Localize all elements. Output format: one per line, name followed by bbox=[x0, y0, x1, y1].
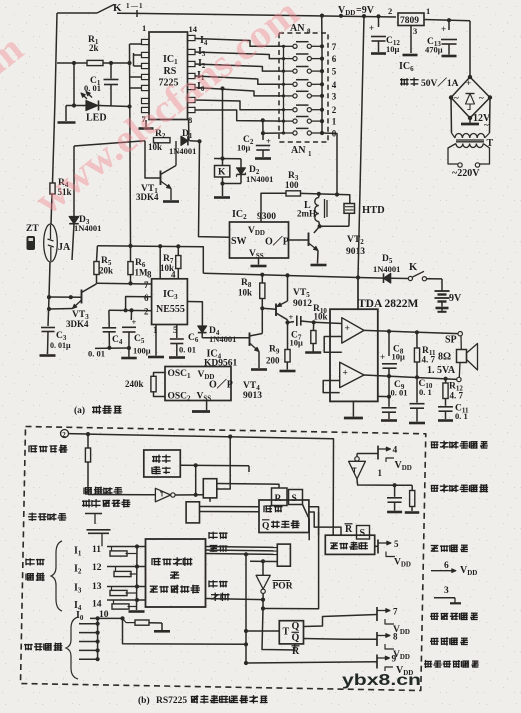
switch AN row 7 bbox=[282, 42, 324, 49]
node lock indicate label bbox=[430, 613, 478, 620]
pin 7 output bbox=[377, 607, 410, 637]
svg-text:K: K bbox=[218, 168, 226, 178]
svg-text:RS7225: RS7225 bbox=[156, 696, 187, 706]
diode D5 bbox=[373, 254, 408, 283]
ground (C10) bbox=[409, 422, 425, 425]
svg-text:R: R bbox=[345, 524, 353, 535]
node keypad digit 4 bbox=[332, 80, 337, 90]
inverter (level indicator) bbox=[88, 488, 203, 502]
svg-text:9012: 9012 bbox=[293, 299, 312, 309]
wire: R3 to HTD node bbox=[301, 192, 350, 204]
ground (C11) bbox=[438, 419, 453, 422]
svg-text:K: K bbox=[113, 2, 122, 14]
block power-on reset bbox=[144, 450, 181, 477]
svg-text:Q: Q bbox=[292, 633, 300, 644]
regulator 7809 bbox=[388, 6, 430, 36]
svg-text:1: 1 bbox=[126, 2, 130, 10]
svg-text:2: 2 bbox=[62, 431, 66, 439]
ground (relay K) bbox=[214, 196, 230, 199]
svg-text:3DK4: 3DK4 bbox=[136, 192, 159, 202]
ground (C2) bbox=[255, 157, 271, 160]
svg-text:4: 4 bbox=[332, 80, 337, 90]
wire: left supply rail bbox=[49, 13, 57, 297]
op-amp TDA A2 bbox=[340, 362, 364, 387]
resistor R8 bbox=[238, 275, 265, 311]
svg-text:~220V: ~220V bbox=[452, 168, 480, 179]
svg-text:8: 8 bbox=[307, 28, 311, 36]
pin 9 output bbox=[377, 655, 413, 678]
block pulse shaper 1 bbox=[203, 479, 217, 502]
node AN8 label bbox=[290, 23, 311, 36]
node aux delay out label bbox=[431, 441, 488, 449]
svg-text:14: 14 bbox=[189, 24, 198, 34]
svg-text:~: ~ bbox=[484, 120, 489, 130]
node sequence correct label bbox=[209, 580, 230, 601]
svg-text:(b): (b) bbox=[138, 695, 150, 706]
capacitor C7 bbox=[288, 312, 314, 348]
wire: relay bottom node bbox=[220, 177, 241, 196]
svg-text:0. 01: 0. 01 bbox=[88, 349, 105, 359]
wire: vertical bus to T-FF bbox=[244, 554, 248, 665]
svg-text:6: 6 bbox=[144, 293, 149, 303]
svg-text:JA: JA bbox=[58, 242, 71, 253]
resistor R7 bbox=[160, 246, 181, 278]
resistor R9 bbox=[266, 323, 290, 370]
resistor (I2) bbox=[114, 567, 137, 577]
wire: VDD drop to mid rail bbox=[356, 16, 364, 280]
svg-text:0. 1: 0. 1 bbox=[419, 387, 432, 397]
capacitor C5 bbox=[122, 310, 151, 357]
svg-text:1: 1 bbox=[308, 150, 312, 158]
node keypad digit 5 bbox=[332, 67, 337, 77]
pin 6 VDD bbox=[431, 561, 477, 577]
sensor ZT bbox=[26, 224, 39, 250]
svg-text:6: 6 bbox=[444, 561, 449, 571]
ground (VT1) bbox=[163, 200, 179, 203]
wire: keypad left bus bbox=[283, 46, 285, 133]
node input delay label bbox=[82, 487, 130, 508]
wire: IC1 left pin bus bbox=[127, 44, 141, 246]
svg-text:+: + bbox=[380, 352, 385, 362]
svg-text:5: 5 bbox=[332, 67, 337, 77]
wire: reset output bbox=[180, 463, 249, 497]
inductor L 2mH bbox=[297, 194, 327, 226]
timer IC3 NE555 bbox=[144, 279, 187, 335]
wire: IC1 pin10 to keypad row3 bbox=[195, 86, 284, 96]
svg-text:9013: 9013 bbox=[243, 391, 262, 401]
svg-text:S: S bbox=[360, 528, 366, 539]
svg-text:2mH: 2mH bbox=[297, 209, 316, 219]
node watermark bbox=[0, 0, 307, 259]
capacitor C2 bbox=[237, 133, 271, 157]
svg-text:1. 5VA: 1. 5VA bbox=[427, 365, 456, 376]
svg-text:7: 7 bbox=[332, 42, 337, 52]
svg-text:1N4001: 1N4001 bbox=[74, 223, 101, 233]
wire: reset vertical to shaper bbox=[217, 437, 230, 489]
resistor (I1) bbox=[110, 547, 137, 557]
svg-text:20k: 20k bbox=[99, 266, 113, 276]
capacitor C13 bbox=[425, 20, 457, 56]
ground (I0) bbox=[154, 630, 170, 633]
node keypad digit 3 bbox=[332, 91, 337, 101]
svg-text:K: K bbox=[409, 262, 418, 273]
pin 4 output bbox=[357, 446, 412, 473]
svg-text:O／P: O／P bbox=[209, 378, 233, 391]
svg-text:=9V: =9V bbox=[356, 5, 375, 16]
relay K bbox=[214, 89, 241, 178]
node section (b) caption bbox=[138, 695, 268, 706]
svg-text:8: 8 bbox=[393, 632, 398, 642]
wire: IC1 pin13 to keypad row6 bbox=[195, 52, 284, 59]
resistor (input delay) bbox=[85, 434, 90, 494]
wire: top VDD rail bbox=[137, 10, 396, 18]
transistor VT5 9012 bbox=[262, 275, 312, 324]
ground (7809 pin3) bbox=[399, 26, 418, 74]
svg-text:0: 0 bbox=[332, 129, 337, 139]
svg-text:1N4001: 1N4001 bbox=[209, 334, 236, 344]
wire: L bottom to HTD bottom bbox=[318, 224, 349, 228]
switch AN row 4 bbox=[282, 80, 324, 87]
svg-text:13: 13 bbox=[92, 582, 102, 592]
svg-text:1: 1 bbox=[332, 117, 337, 127]
node ybx8.cn bbox=[342, 672, 421, 689]
svg-text:R: R bbox=[275, 494, 282, 504]
svg-text:(a): (a) bbox=[74, 405, 85, 416]
svg-text:Q: Q bbox=[262, 522, 269, 532]
svg-text:7: 7 bbox=[144, 280, 149, 290]
svg-text:240k: 240k bbox=[125, 379, 144, 389]
node keypad digit 2 bbox=[332, 105, 337, 115]
node AN1 label bbox=[291, 145, 312, 158]
node input I0 bbox=[76, 610, 109, 622]
ground (555 pin1) bbox=[148, 325, 164, 358]
wire: enable line across bbox=[88, 434, 334, 535]
LED bbox=[66, 63, 130, 124]
svg-text:4. 7: 4. 7 bbox=[450, 391, 464, 401]
svg-text:9: 9 bbox=[392, 655, 397, 665]
svg-text:5: 5 bbox=[394, 539, 399, 549]
capacitor C8 bbox=[380, 331, 405, 396]
wire: TDA A1 feedback bbox=[324, 337, 342, 353]
svg-text:1N4001: 1N4001 bbox=[246, 174, 273, 184]
wire: keypad row0 link and C2 node bbox=[261, 120, 284, 135]
svg-text:2k: 2k bbox=[89, 43, 99, 53]
wire: 555 pin2 line bbox=[109, 308, 152, 312]
wire: IC1 pin12 to keypad row5 bbox=[195, 64, 284, 71]
capacitor (aux delay) bbox=[387, 485, 402, 510]
block flip-flop S bbox=[289, 490, 303, 505]
svg-text:2: 2 bbox=[388, 6, 392, 16]
svg-text:10k: 10k bbox=[238, 288, 252, 298]
keypad AN1-AN8 dashed box bbox=[279, 33, 328, 142]
svg-text:7809: 7809 bbox=[400, 16, 419, 26]
resistor R4 bbox=[50, 178, 72, 197]
wire: mid supply rail bbox=[203, 273, 383, 279]
wire: 7809 output bbox=[424, 18, 470, 22]
svg-text:9013: 9013 bbox=[346, 247, 365, 257]
inverter POR bbox=[250, 559, 293, 610]
wire: shaper2 outputs bbox=[200, 507, 260, 512]
wire: Qbar to pin8 bbox=[304, 638, 378, 641]
ground (IC4 VSS) bbox=[192, 401, 210, 412]
wire: TDA A2 output line bbox=[364, 374, 457, 381]
node I4 bbox=[200, 35, 208, 47]
node section (a) caption bbox=[74, 405, 122, 416]
svg-text:9V: 9V bbox=[449, 293, 462, 304]
node input I3 bbox=[74, 582, 102, 595]
pin 5 output bbox=[375, 539, 411, 569]
speaker SP bbox=[427, 332, 478, 382]
transformer T bbox=[448, 98, 494, 168]
wire: POR to T reset bbox=[262, 512, 319, 650]
switch K (battery) bbox=[408, 262, 442, 291]
op-amp IC1 RS7225 body bbox=[142, 23, 198, 125]
block pulse shaper 2 bbox=[186, 502, 199, 523]
wire: keypad row0 to HTD feed bbox=[322, 133, 339, 197]
node error out label bbox=[431, 545, 468, 552]
svg-text:SW: SW bbox=[231, 236, 247, 247]
svg-text:9300: 9300 bbox=[257, 212, 276, 222]
svg-text:7: 7 bbox=[393, 607, 398, 617]
wire: I4 line bbox=[107, 598, 146, 602]
resistor R1 bbox=[57, 35, 130, 66]
pin 8 output bbox=[377, 632, 410, 662]
svg-text:10k: 10k bbox=[314, 312, 328, 322]
wire: error-code input lines bbox=[79, 618, 100, 661]
svg-text:~: ~ bbox=[479, 93, 484, 103]
resistor R12 bbox=[443, 379, 464, 406]
transistor VT4 9013 bbox=[243, 308, 262, 401]
node 12V bbox=[473, 113, 491, 130]
node input I1 bbox=[74, 545, 101, 558]
svg-text:1N4001: 1N4001 bbox=[373, 264, 400, 274]
resistor R6 bbox=[128, 246, 148, 284]
svg-text:10μ: 10μ bbox=[386, 44, 400, 54]
wire: keypad right bus bbox=[321, 16, 323, 133]
resistor R11 bbox=[414, 332, 436, 377]
svg-text:100: 100 bbox=[285, 180, 299, 190]
svg-text:2: 2 bbox=[144, 307, 149, 317]
node I2 bbox=[198, 58, 206, 70]
bridge rectifier bbox=[449, 21, 492, 120]
node enable label bbox=[29, 445, 67, 453]
svg-text:3: 3 bbox=[332, 91, 337, 101]
svg-text:4: 4 bbox=[393, 446, 398, 456]
ground (LED) bbox=[58, 106, 76, 123]
capacitor C12 bbox=[369, 16, 400, 54]
svg-text:ybx8.cn: ybx8.cn bbox=[342, 672, 421, 689]
wire: TDA lower line bbox=[378, 395, 391, 399]
wire: TDA VDD stem bbox=[357, 278, 359, 310]
transistor VT3 3DK4 bbox=[47, 281, 133, 329]
block error logic bbox=[325, 535, 374, 554]
wire: 555 pin8 riser bbox=[147, 246, 176, 279]
resistor R5 bbox=[94, 246, 113, 283]
wire: I2 line bbox=[107, 564, 146, 568]
node aux delay in label bbox=[431, 484, 488, 492]
ground (R10) bbox=[305, 351, 321, 354]
node keypad digit 6 bbox=[332, 54, 337, 64]
capacitor C3 bbox=[41, 297, 71, 354]
block flip-flop R bbox=[272, 488, 288, 506]
node secret-code delay label bbox=[28, 513, 66, 521]
resistor (aux delay) bbox=[410, 485, 415, 511]
svg-text:2: 2 bbox=[332, 105, 337, 115]
ground (C6) bbox=[169, 356, 185, 359]
svg-text:10μ: 10μ bbox=[290, 338, 304, 348]
wire: C7 to TDA input bbox=[314, 322, 342, 323]
sound IC4 KD9561 bbox=[165, 349, 238, 403]
svg-text:10μ: 10μ bbox=[237, 143, 251, 153]
node sequence input label bbox=[26, 558, 45, 581]
svg-text:HTD: HTD bbox=[362, 205, 385, 216]
node Rbar S labels bbox=[345, 524, 370, 539]
switch AN row 5 bbox=[282, 67, 324, 74]
svg-text:ZT: ZT bbox=[26, 224, 39, 234]
ground (aux cap) bbox=[387, 511, 402, 514]
svg-text:14: 14 bbox=[92, 600, 102, 610]
svg-text:+: + bbox=[466, 78, 471, 88]
op-amp IC2 9300 bbox=[230, 209, 289, 260]
svg-text:S: S bbox=[292, 494, 297, 504]
capacitor C9 bbox=[382, 380, 408, 419]
svg-text:R: R bbox=[292, 646, 300, 657]
block sequence store bbox=[259, 500, 309, 533]
svg-text:1: 1 bbox=[378, 468, 383, 478]
node momentary lock label bbox=[424, 660, 479, 668]
node ~220V bbox=[452, 168, 480, 179]
svg-text:1: 1 bbox=[142, 23, 146, 33]
piezo HTD bbox=[344, 204, 385, 227]
wire: I0 line bbox=[90, 616, 125, 620]
ground (IC1 pin7) bbox=[139, 120, 154, 129]
svg-text:470μ: 470μ bbox=[425, 45, 443, 55]
resistor (I3) bbox=[110, 587, 137, 596]
ground (C3) bbox=[40, 354, 56, 357]
svg-text:1N4001: 1N4001 bbox=[169, 146, 196, 156]
block T flip-flop bbox=[246, 621, 304, 657]
svg-text:O／P: O／P bbox=[265, 235, 289, 248]
wire: secret-code delay cap bbox=[85, 514, 111, 547]
resistor R10 bbox=[311, 304, 328, 352]
svg-text:~: ~ bbox=[454, 93, 459, 103]
node error-code input label bbox=[24, 643, 62, 651]
inverter (aux delay) bbox=[349, 454, 413, 488]
ground (VT2) bbox=[311, 264, 327, 267]
svg-text:+: + bbox=[345, 324, 350, 334]
svg-text:T: T bbox=[283, 627, 290, 638]
wire: D1 node to IC2 SW bbox=[199, 141, 230, 237]
amplifier TDA2822M bbox=[330, 298, 419, 401]
resistor (I0) bbox=[123, 618, 163, 630]
node I1 bbox=[197, 70, 205, 82]
svg-text:LED: LED bbox=[86, 113, 107, 124]
capacitor C10 bbox=[410, 377, 433, 421]
svg-text:50V／1A: 50V／1A bbox=[421, 77, 459, 89]
svg-text:+: + bbox=[289, 312, 294, 322]
ground (TDA) bbox=[344, 401, 363, 418]
svg-text:1: 1 bbox=[139, 2, 143, 10]
diode D3 bbox=[69, 146, 101, 260]
battery 9V bbox=[435, 291, 463, 307]
capacitor C11 bbox=[438, 404, 469, 422]
ground (R9) bbox=[280, 370, 296, 373]
svg-text:0. 01μ: 0. 01μ bbox=[50, 341, 71, 350]
ground (VT4) bbox=[251, 368, 267, 371]
node 2 enable bbox=[61, 430, 91, 439]
svg-text:3: 3 bbox=[413, 26, 417, 36]
wire: D3 top to R2 bbox=[74, 141, 145, 146]
wire: 555 pin6 line bbox=[124, 297, 152, 313]
svg-text:+: + bbox=[132, 317, 137, 327]
wire: R3 feed to IC2 VDD bbox=[261, 193, 286, 222]
block error detector bbox=[146, 539, 206, 607]
svg-text:AN: AN bbox=[291, 145, 306, 156]
diode D1 bbox=[169, 129, 202, 156]
switch AN row 2 bbox=[282, 105, 324, 112]
svg-text:100μ: 100μ bbox=[133, 346, 151, 356]
node keypad digit 1 bbox=[332, 117, 337, 127]
svg-text:200: 200 bbox=[266, 356, 280, 366]
pin 3 ground bbox=[434, 586, 461, 603]
wire: D4 to VT4 base bbox=[202, 337, 249, 339]
wire: 555 pin7 line bbox=[97, 282, 152, 285]
ground (C5) bbox=[121, 357, 137, 360]
svg-text:1: 1 bbox=[426, 6, 430, 16]
node sequence error label bbox=[209, 532, 228, 552]
wire: error-code brace bbox=[66, 617, 78, 679]
wire: IC1 pin8 down to D1 node bbox=[188, 120, 191, 141]
wire: input resistor bus bbox=[129, 547, 145, 612]
node I0 bbox=[197, 81, 205, 93]
wire: IC1 pin11 to keypad row4 bbox=[195, 76, 284, 84]
switch AN row 1 bbox=[282, 117, 324, 124]
svg-text:4. 7: 4. 7 bbox=[422, 355, 436, 365]
resistor (I4) bbox=[112, 600, 137, 609]
block POR shaper bbox=[277, 544, 290, 566]
resistor R2 bbox=[148, 129, 170, 152]
op-amp TDA A1 bbox=[342, 318, 364, 343]
wire: Q to pin7 bbox=[304, 615, 378, 627]
wire: TDA A1 output to SP bbox=[364, 329, 458, 334]
svg-text:+: + bbox=[266, 136, 271, 146]
ground (C9) bbox=[381, 419, 397, 422]
wire: I1 line bbox=[107, 544, 146, 548]
svg-text:NE555: NE555 bbox=[156, 304, 185, 315]
ground (battery) bbox=[436, 308, 449, 312]
svg-text:POR: POR bbox=[273, 582, 293, 592]
svg-text:0. 1: 0. 1 bbox=[455, 411, 468, 421]
node bridge label bbox=[400, 77, 459, 89]
node I3 bbox=[198, 46, 206, 58]
wire: shaper to RS bbox=[217, 484, 279, 489]
switch K1-1 bbox=[57, 2, 143, 14]
switch AN row 3 bbox=[282, 91, 324, 98]
node input I4 bbox=[74, 600, 102, 613]
wire: I3 line bbox=[107, 584, 146, 588]
svg-text:TDA 2822M: TDA 2822M bbox=[358, 298, 419, 310]
ground (aux res) bbox=[405, 511, 420, 514]
svg-text:10μ: 10μ bbox=[392, 352, 406, 362]
svg-text:1M: 1M bbox=[135, 268, 149, 278]
resistor R3 bbox=[285, 171, 301, 196]
wire: 555 VDD rail bbox=[97, 244, 203, 273]
wire: IC1 pin8 side to keypad row1 bbox=[195, 110, 284, 123]
wire: store to error logic bbox=[303, 505, 342, 541]
wire: IC1 pin9 to keypad row2 bbox=[195, 100, 284, 110]
wire: sequence correct line bbox=[206, 598, 266, 602]
diode D4 bbox=[187, 302, 236, 345]
